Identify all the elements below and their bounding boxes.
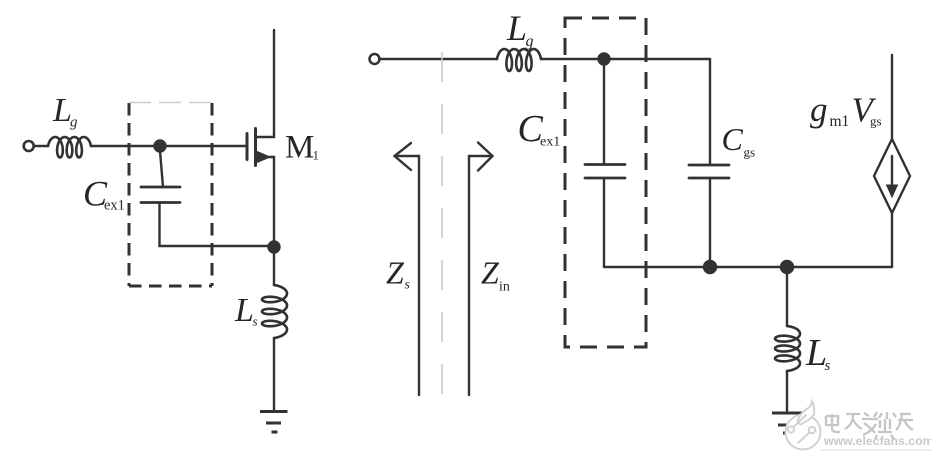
label Cgs xyxy=(722,121,756,160)
inductor Ls (left circuit, vertical) xyxy=(262,285,287,338)
ground (left circuit) xyxy=(260,412,288,433)
svg-text:M: M xyxy=(285,130,314,166)
svg-text:gs: gs xyxy=(870,114,882,129)
label Ls (left) xyxy=(234,292,258,329)
svg-text:Z: Z xyxy=(386,255,405,291)
watermark logo circle xyxy=(786,402,821,450)
svg-text:www.elecfans.com: www.elecfans.com xyxy=(823,434,931,448)
svg-text:s: s xyxy=(405,278,411,293)
wire node A to capacitor Cex1 top plate (slanted) xyxy=(160,151,163,187)
label Zs xyxy=(386,255,411,293)
svg-text:L: L xyxy=(52,92,72,129)
svg-text:1: 1 xyxy=(313,148,320,163)
svg-text:gs: gs xyxy=(744,145,756,160)
wire current source to bottom rail xyxy=(891,213,893,267)
wire Cgs bottom to node D xyxy=(709,178,711,267)
svg-text:s: s xyxy=(825,358,831,374)
svg-text:g: g xyxy=(810,90,828,129)
wire Ls to ground (right) xyxy=(786,371,788,411)
node A: gate node xyxy=(155,141,166,152)
Zs impedance arrow xyxy=(397,156,419,395)
capacitor Cex1 (left circuit) xyxy=(141,187,180,203)
label Ls (right) xyxy=(805,332,831,374)
dashed enclosure box (left circuit) xyxy=(129,103,212,286)
wire node E down to Ls xyxy=(786,273,788,326)
wire drain stub to current source xyxy=(891,55,893,139)
reference plane dashed line xyxy=(441,52,443,404)
wire Lg to Cgs branch xyxy=(541,58,710,60)
dashed enclosure box (right circuit) xyxy=(565,18,646,347)
wire Ls to ground xyxy=(273,338,275,411)
wire drain of M1 up xyxy=(256,30,275,137)
label Zin xyxy=(481,255,510,295)
Zin impedance arrow xyxy=(469,156,490,395)
svg-text:g: g xyxy=(70,115,78,131)
wire top rail down to Cgs xyxy=(709,59,711,165)
svg-text:C: C xyxy=(722,121,744,157)
label Lg (left) xyxy=(52,92,78,131)
source arrow of M1 xyxy=(257,152,270,163)
svg-text:g: g xyxy=(526,33,534,50)
node D: Cgs bottom junction xyxy=(704,261,716,273)
inductor Ls (right circuit, vertical) xyxy=(775,326,800,371)
svg-text:L: L xyxy=(234,292,254,329)
label Cex1 (left) xyxy=(83,174,125,214)
inductor Lg (right circuit) xyxy=(497,49,541,71)
svg-text:in: in xyxy=(499,280,510,295)
node B: source node xyxy=(269,242,280,253)
wire terminal to Lg xyxy=(34,145,48,147)
inductor Lg (left circuit) xyxy=(48,137,91,158)
bottom rail wire xyxy=(604,266,892,268)
svg-text:s: s xyxy=(253,314,258,329)
label gm1Vgs xyxy=(810,90,882,130)
dependent current source gm1ated diamond xyxy=(874,139,910,213)
capacitor Cex1 (right circuit) xyxy=(585,165,625,179)
svg-text:m1: m1 xyxy=(830,113,850,130)
wire Cex1 bottom to bottom rail xyxy=(603,178,605,267)
wire node C down to Cex1 xyxy=(603,59,605,164)
svg-text:Z: Z xyxy=(481,255,500,291)
wire node B to Ls xyxy=(273,252,275,285)
capacitor Cgs xyxy=(689,165,729,178)
svg-text:L: L xyxy=(506,8,527,48)
svg-text:ex1: ex1 xyxy=(104,198,125,214)
label Lg (right) xyxy=(506,8,534,50)
label Cex1 (right) xyxy=(518,108,561,150)
svg-text:ex1: ex1 xyxy=(540,135,560,150)
wire source of M1 down to node B xyxy=(256,157,275,242)
wire terminal to Lg (right) xyxy=(379,58,497,60)
current source arrow xyxy=(891,156,893,186)
input terminal (right circuit) xyxy=(370,54,380,64)
watermark Chinese text 电子发烧友 (drawn strokes) xyxy=(826,412,913,439)
ground (right circuit) xyxy=(772,413,802,433)
wire Lg to gate of M1 xyxy=(91,145,246,147)
transistor M1 (NMOS) xyxy=(247,129,256,166)
node C: input node xyxy=(599,54,610,65)
input terminal (left circuit) xyxy=(24,141,34,151)
label M1 xyxy=(285,130,319,166)
node E: Ls junction xyxy=(781,261,793,273)
wire Cex1 bottom plate to source node xyxy=(160,204,270,246)
